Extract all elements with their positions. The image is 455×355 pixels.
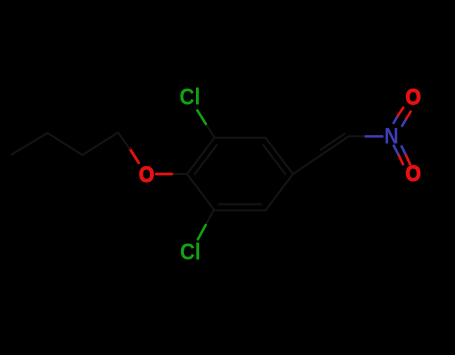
chlorine Cl top: C-Cl bond carbon half [206,124,215,138]
wire ring edge V_TR to V_R [266,138,294,174]
wire ring edge V_L to V_TL [187,138,215,174]
svg-text:O: O [406,86,421,110]
nitro N=O bottom double bond line2 oxygen half [406,156,410,165]
wire ring edge V_TL to V_TR [215,137,266,139]
wire ring edge V_BL to V_L [187,174,215,210]
butyl chain wire C3-C4 [12,133,48,155]
svg-text:O: O [406,162,421,186]
benzene ring C1-C6 [187,138,293,211]
wire ring edge V_BR to V_BL [215,209,266,211]
ether O: O-CH2 bond oxygen half [130,149,139,163]
nitro N=O top double bond line2 nitrogen half [402,119,406,126]
wire aromatic inner line bottom [219,203,261,205]
svg-text:Cl: Cl [180,84,201,110]
chlorine Cl bottom: C-Cl bond carbon half [206,210,214,225]
nitro: CH-N bond carbon half [349,135,366,137]
chlorine Cl bottom: C-Cl bond chlorine half [198,225,206,239]
ether O: O-CH2 bond carbon half [118,133,130,149]
vinyl: CH=CH double bond second line [321,134,345,150]
svg-text:O: O [139,163,154,187]
vinyl: ring-CH bond [293,155,321,174]
vinyl: CH=CH double bond main line [321,136,349,155]
butyl chain wire C1-C2 [83,133,119,156]
ether O: ring-O bond oxygen half [156,173,172,176]
nitro N=O bottom double bond line2 nitrogen half [402,146,407,155]
nitro N=O top double bond line1 oxygen half [398,108,403,116]
ether O: ring-O bond carbon half [172,173,187,175]
butyl chain wire C2-C3 [48,133,83,155]
svg-text:Cl: Cl [180,238,201,264]
wire aromatic inner line upper-right [263,145,285,174]
nitro N=O bottom double bond line1 oxygen half [399,156,403,165]
nitro N=O top double bond line2 oxygen half [406,112,410,119]
nitro N=O bottom double bond line1 nitrogen half [394,146,399,156]
svg-text:N: N [384,124,398,148]
nitro N=O top double bond line1 nitrogen half [394,116,398,123]
wire ring edge V_R to V_BR [266,174,294,210]
chlorine Cl top: C-Cl bond chlorine half [197,110,206,124]
wire aromatic inner line upper-left [195,145,217,174]
nitro: CH-N bond nitrogen half [366,135,383,138]
